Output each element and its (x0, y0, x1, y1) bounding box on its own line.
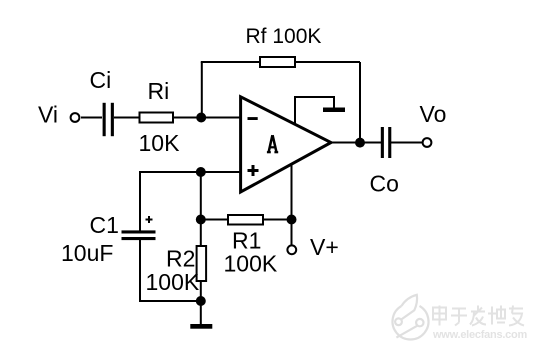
wire C1 bottom branch (139, 239, 141, 301)
wire Co to Vo (391, 142, 423, 144)
op-amp label A (267, 135, 278, 152)
svg-text:100K: 100K (146, 269, 200, 295)
resistor Rf (260, 57, 295, 67)
svg-text:Vi: Vi (38, 102, 58, 128)
capacitor C1 (122, 230, 156, 233)
node junction R1 right (287, 215, 297, 225)
watermark logo bubble (393, 295, 429, 340)
wire Ri to op-amp inverting input (173, 117, 241, 119)
terminal Vi (71, 113, 80, 122)
svg-text:10uF: 10uF (61, 240, 113, 266)
svg-text:V+: V+ (310, 234, 339, 260)
wire Ci to Ri (114, 117, 140, 119)
resistor R1 (228, 215, 263, 225)
node output junction (355, 138, 365, 148)
watermark chinese text 电子发烧友 (433, 306, 524, 326)
capacitor C1 polarity plus (146, 219, 153, 221)
svg-text:C1: C1 (90, 212, 119, 238)
op-amp U1 triangle (241, 97, 331, 192)
wire R1 right (263, 219, 292, 221)
svg-text:Ri: Ri (148, 78, 170, 104)
ground (200, 301, 202, 325)
svg-text:www.elecfans.com: www.elecfans.com (432, 329, 527, 341)
op-amp minus input marker (248, 117, 258, 120)
wire C1 top branch (139, 171, 141, 232)
svg-text:Ci: Ci (90, 67, 112, 93)
op-amp top ground symbol (295, 97, 334, 125)
svg-text:R2: R2 (166, 246, 195, 272)
node junction ground (196, 296, 206, 306)
wire V+ branch from op-amp (291, 164, 293, 246)
wire Vi to Ci (81, 117, 102, 119)
wire bottom horizontal to ground node (139, 300, 201, 302)
wire feedback left vertical (201, 62, 203, 118)
op-amp plus input marker (248, 169, 259, 172)
wire feedback top horizontal (201, 61, 360, 63)
resistor R2 (197, 246, 207, 281)
capacitor Co (381, 127, 384, 158)
resistor Ri (140, 113, 174, 123)
svg-text:10K: 10K (139, 130, 181, 156)
terminal V+ (287, 245, 296, 254)
node junction at inverting input (196, 113, 206, 123)
wire mid vertical plus to R2 (200, 172, 202, 246)
wire R1 left (201, 219, 229, 221)
node junction R1 left (196, 215, 206, 225)
svg-text:100K: 100K (224, 251, 278, 277)
wire op-amp output (331, 142, 381, 144)
svg-text:Vo: Vo (420, 101, 447, 127)
wire R2 bottom (200, 281, 202, 301)
capacitor Ci (103, 103, 106, 136)
svg-text:Rf 100K: Rf 100K (246, 25, 322, 48)
wire feedback right vertical (359, 62, 361, 143)
svg-text:Co: Co (370, 171, 399, 197)
wire op-amp non-inverting input (140, 171, 241, 173)
terminal Vo (423, 138, 432, 147)
node junction plus input (196, 167, 206, 177)
